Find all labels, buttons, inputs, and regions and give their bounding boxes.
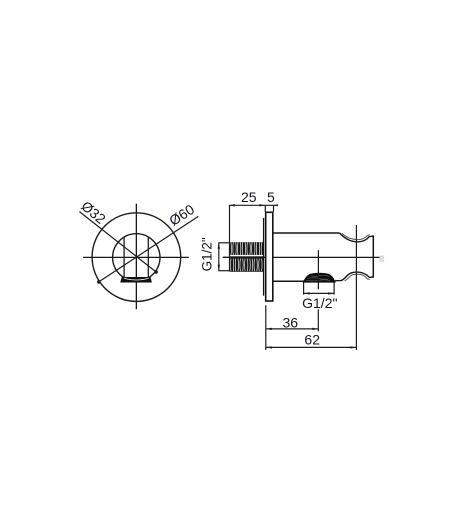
leader line D32 xyxy=(79,212,156,273)
thread dia ext tick bottom xyxy=(218,270,229,272)
spout extension line right xyxy=(333,282,335,294)
spout dimension line xyxy=(304,292,335,294)
main centerline xyxy=(223,256,380,258)
holder top wave outer xyxy=(340,233,374,242)
body tube bottom line xyxy=(273,280,304,282)
arrow 36 left xyxy=(266,328,272,330)
holder right face xyxy=(372,235,374,277)
arrow at 25 left xyxy=(229,204,235,206)
leader dot D32 xyxy=(154,270,158,274)
white seam at thread middle xyxy=(230,255,264,256)
holder top wave inner xyxy=(342,233,370,239)
svg-text:36: 36 xyxy=(283,314,299,330)
thread dia ext tick top xyxy=(218,242,229,244)
vertical centerline xyxy=(135,204,137,310)
thread dia dim line xyxy=(218,243,220,271)
spout extension line left xyxy=(303,282,305,294)
bottom outlet bar (filled) xyxy=(120,277,152,283)
arrow 62 left xyxy=(266,346,272,348)
dim 36 line xyxy=(266,328,319,330)
dim 62 line xyxy=(266,346,357,348)
spout dim arrow right xyxy=(328,292,334,294)
wall plate back chamfer line xyxy=(263,218,265,296)
arrow 36 right xyxy=(312,328,318,330)
arrow at 5 right (outside) xyxy=(274,204,278,206)
svg-text:G1/2": G1/2" xyxy=(199,237,214,271)
leader line D60 xyxy=(99,216,199,282)
thread dia arrow up xyxy=(218,243,220,249)
ext line thread tip xyxy=(229,205,231,271)
svg-text:62: 62 xyxy=(304,332,320,348)
right chord line xyxy=(147,237,149,278)
centerline over thread xyxy=(223,256,270,258)
holder bottom wave inner xyxy=(345,274,370,281)
thread dia arrow down xyxy=(218,265,220,271)
svg-text:G1/2": G1/2" xyxy=(302,295,337,311)
thread block G1/2 xyxy=(230,242,264,272)
leader dot D60 xyxy=(97,280,101,284)
ext line 36 right (spout axis) xyxy=(317,309,319,331)
inner circle D32 xyxy=(113,234,160,281)
spout dim arrow left xyxy=(304,292,310,294)
arrow at 25 right xyxy=(259,204,265,206)
dim 25-5 line xyxy=(229,204,278,206)
outer circle D60 xyxy=(92,213,181,302)
spout centerline xyxy=(317,250,319,289)
ext line 62 right (holder waist) xyxy=(355,225,357,350)
body tube top line xyxy=(273,232,340,234)
left chord line xyxy=(123,237,125,278)
svg-text:25: 25 xyxy=(241,189,257,205)
ext line plate back xyxy=(264,205,266,212)
horizontal centerline xyxy=(83,256,189,258)
white arc inside bar xyxy=(124,278,149,280)
ext line 36/62 left (plate back) xyxy=(265,305,267,350)
faint watermark square xyxy=(380,256,385,262)
spout dome texture streaks xyxy=(306,275,330,281)
ext line plate front xyxy=(273,205,275,212)
wall plate body xyxy=(266,212,273,301)
arrow 62 right xyxy=(350,346,356,348)
spout dome base line xyxy=(303,280,336,282)
svg-text:5: 5 xyxy=(267,189,275,205)
holder bottom wave outer xyxy=(335,272,373,281)
spout dome (filled black) xyxy=(303,273,335,283)
